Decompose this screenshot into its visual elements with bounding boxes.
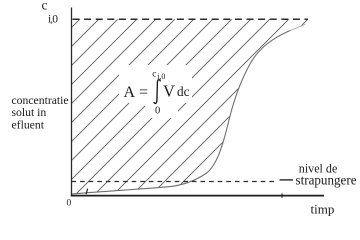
- svg-text:0: 0: [155, 106, 160, 117]
- svg-text:0: 0: [67, 199, 72, 209]
- integral sign: [154, 80, 161, 104]
- svg-text:strapungere: strapungere: [296, 174, 357, 189]
- breakthrough curve faint tail: [290, 24, 306, 30]
- white gap masks around formula: [119, 65, 192, 103]
- svg-text:timp: timp: [311, 201, 335, 216]
- y-axis: [71, 8, 73, 197]
- svg-text:c: c: [152, 70, 156, 80]
- svg-text:V: V: [163, 82, 175, 101]
- svg-text:A =: A =: [124, 84, 149, 101]
- svg-text:c: c: [42, 0, 48, 14]
- svg-text:dc: dc: [177, 84, 190, 99]
- lower dashed line: breakthrough level: [72, 181, 278, 183]
- svg-text:concentratie: concentratie: [12, 94, 69, 107]
- breakthrough curve: [72, 31, 291, 195]
- x-axis: [71, 195, 324, 197]
- svg-text:0: 0: [52, 13, 58, 25]
- top dashed line at c_i0 level: [73, 18, 309, 20]
- x-axis tick: [281, 193, 283, 198]
- svg-text:solut in: solut in: [12, 106, 47, 119]
- long dash before 'strapungere': [280, 179, 294, 181]
- svg-text:efluent: efluent: [12, 119, 45, 132]
- small tick mark on curve near origin: [86, 189, 87, 195]
- svg-text:i,0: i,0: [157, 72, 165, 81]
- hatch lines (45 deg) of area A: [0, 10, 360, 200]
